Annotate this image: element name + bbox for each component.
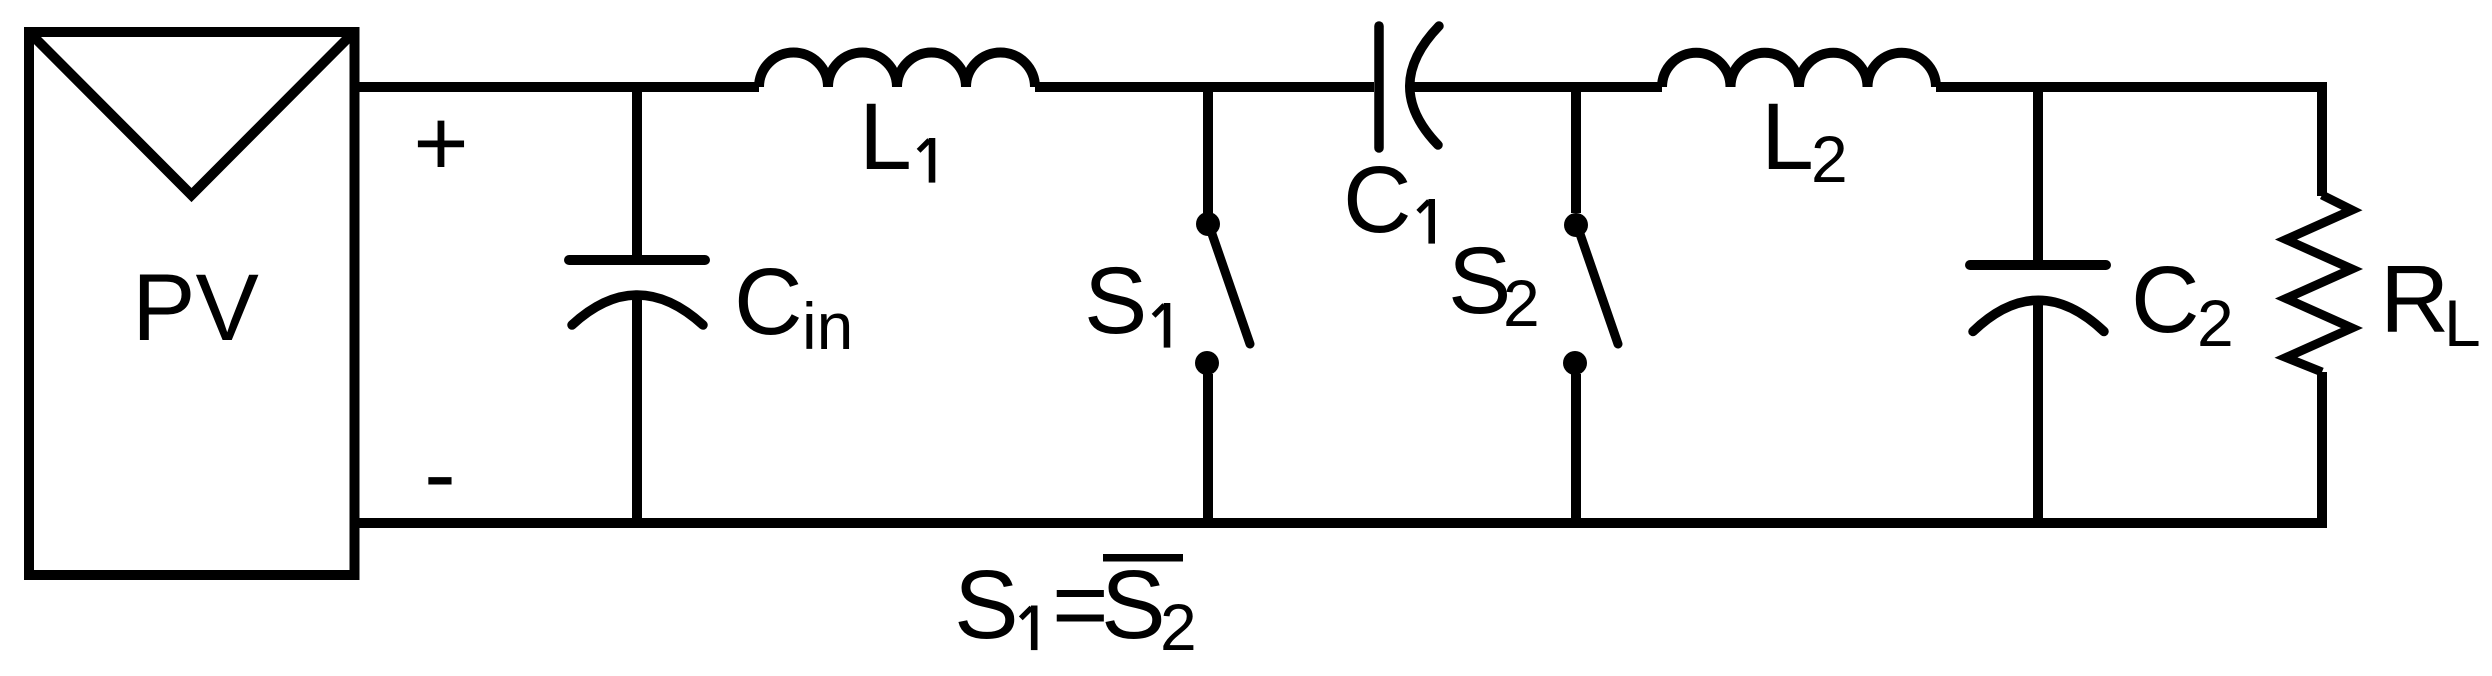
wire: C1 right to L2	[1411, 82, 1662, 92]
wire: C2 top lead	[2033, 87, 2043, 260]
svg-text:S: S	[954, 550, 1019, 659]
capacitor C2 curved plate	[1973, 300, 2104, 331]
svg-text:in: in	[802, 289, 853, 363]
inductor L1	[759, 53, 1035, 87]
wire: top bus PV to L1	[355, 82, 759, 92]
capacitor C2 flat plate	[1970, 260, 2106, 270]
svg-text:C: C	[734, 249, 803, 355]
capacitor C1 curved plate	[1410, 26, 1439, 145]
wire: S1 top lead	[1203, 87, 1213, 213]
svg-text:PV: PV	[132, 255, 259, 361]
wire: L1 to C1 left plate	[1035, 82, 1374, 92]
capacitor Cin curved plate	[572, 295, 703, 325]
equation overline	[1103, 554, 1183, 562]
switch S1 upper contact dot	[1196, 212, 1220, 236]
svg-text:S: S	[1448, 228, 1511, 334]
wire: Cin top lead	[632, 87, 642, 255]
svg-text:2: 2	[1503, 266, 1540, 340]
wire: bottom bus	[355, 372, 2322, 523]
svg-text:C: C	[2131, 247, 2200, 353]
wire: S2 top lead	[1571, 87, 1581, 213]
svg-text:2: 2	[1160, 590, 1197, 664]
svg-text:2: 2	[1811, 122, 1848, 196]
svg-text:+: +	[413, 91, 468, 197]
svg-text:-: -	[424, 421, 456, 527]
switch S1 lower contact dot	[1195, 351, 1219, 375]
wire: C2 bottom lead	[2033, 301, 2043, 523]
wire: S2 bottom lead	[1571, 374, 1581, 523]
svg-text:S: S	[1084, 248, 1147, 354]
switch S2 upper contact dot	[1564, 213, 1588, 237]
svg-text:R: R	[2380, 246, 2449, 353]
wire: S1 bottom lead	[1203, 374, 1213, 523]
capacitor Cin flat plate	[569, 255, 705, 265]
wire: Cin bottom lead	[632, 296, 642, 523]
resistor RL zigzag	[2286, 195, 2352, 372]
switch S2 blade	[1579, 231, 1618, 344]
svg-text:L: L	[859, 84, 912, 190]
wire: L2 to top-right corner	[1936, 87, 2322, 196]
inductor L2	[1662, 53, 1936, 87]
svg-text:L: L	[2444, 286, 2481, 360]
svg-text:L: L	[1761, 84, 1814, 190]
switch S1 blade	[1211, 231, 1250, 344]
svg-text:2: 2	[2197, 286, 2234, 360]
switch S2 lower contact dot	[1563, 351, 1587, 375]
PV panel chevron	[31, 34, 352, 195]
svg-text:C: C	[1343, 147, 1412, 253]
capacitor C1 flat plate	[1374, 26, 1384, 148]
svg-text:S: S	[1101, 550, 1166, 659]
PV panel box	[29, 32, 355, 575]
